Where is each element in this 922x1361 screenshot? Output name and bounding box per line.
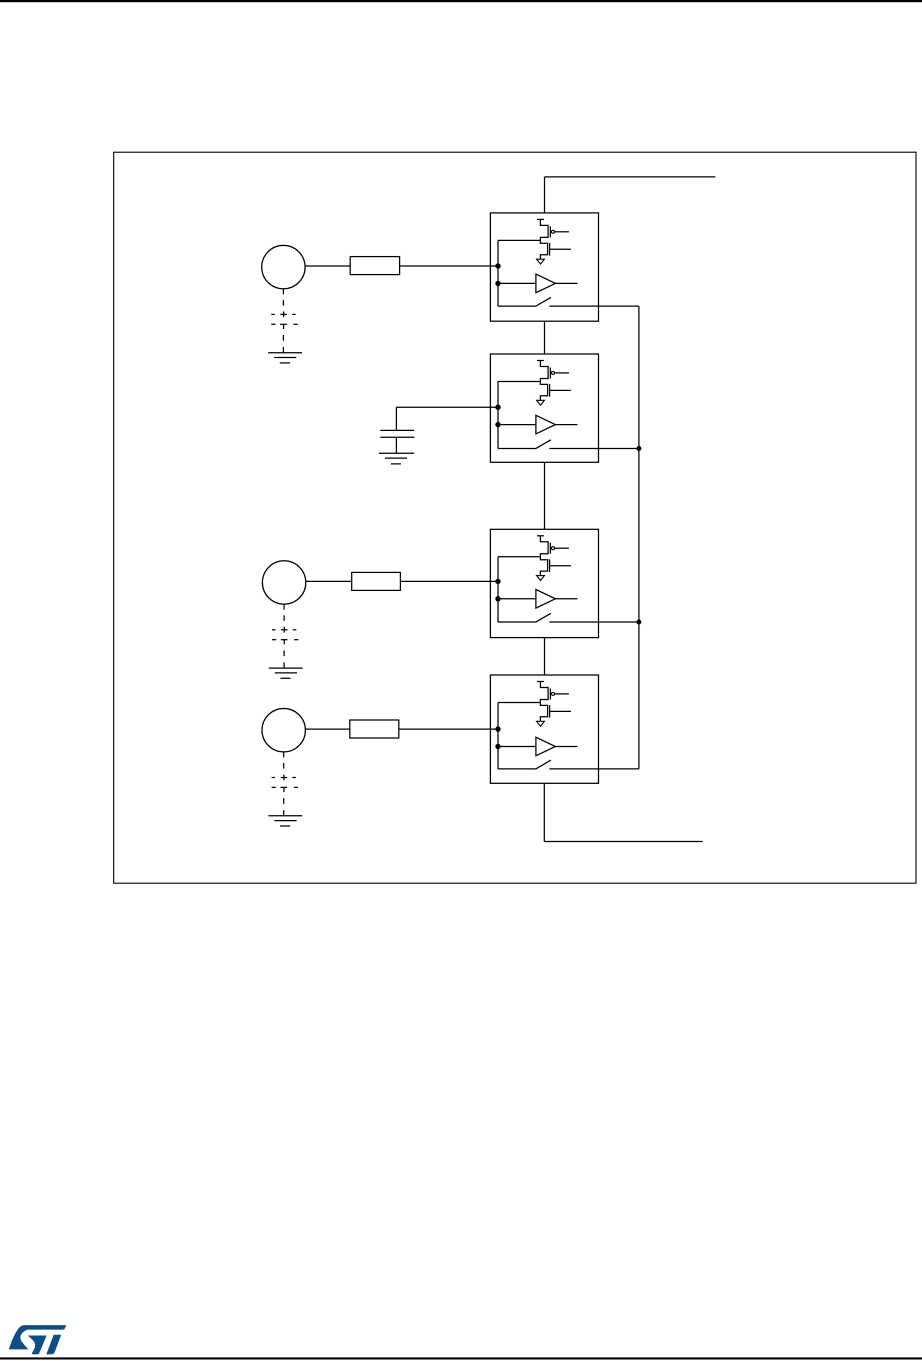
node VOUT top wire xyxy=(545,176,716,178)
common output bus wire xyxy=(638,306,640,769)
U4 PMOS gate bubble xyxy=(552,692,555,695)
U1 PMOS gate bubble xyxy=(552,230,555,233)
U4 NMOS gate lead xyxy=(550,710,571,712)
ground under V2 xyxy=(269,667,303,669)
U2 gate control wire xyxy=(498,381,540,383)
U4 internal control node wire xyxy=(497,703,499,769)
capacitor C1 xyxy=(380,429,414,431)
U2 NMOS gate bar xyxy=(549,384,551,397)
U2 PMOS pass transistor source bar xyxy=(537,360,544,362)
U1 gate control wire xyxy=(498,239,540,241)
U3 switch blade xyxy=(535,613,551,622)
wire V2 to R2 xyxy=(306,580,352,582)
resistor R2 xyxy=(352,572,401,590)
U3 internal control node wire xyxy=(497,557,499,622)
U4 PMOS pass transistor source bar xyxy=(537,681,544,683)
U1 PMOS/NMOS channel staircase wire xyxy=(540,219,548,259)
U3 gate control wire xyxy=(498,556,540,558)
U3 PMOS gate bar xyxy=(549,543,551,554)
U2 switch blade xyxy=(535,440,551,449)
analog switch block U2 box xyxy=(490,354,598,462)
U4 PMOS gate lead xyxy=(555,693,569,695)
U3 switch pole wire xyxy=(498,621,535,623)
V1 dashed battery negative plate xyxy=(271,323,275,325)
U4 switch blade xyxy=(535,760,551,769)
U3 PMOS/NMOS channel staircase wire xyxy=(540,536,548,576)
signal generator V2 circle xyxy=(262,561,305,604)
U1 NMOS gate bar xyxy=(549,243,551,256)
V1 dashed lead upper xyxy=(282,289,284,294)
U2 PMOS gate lead xyxy=(555,372,569,374)
C1 ground lead xyxy=(395,437,397,453)
wire U3 to U4 xyxy=(544,638,546,675)
page header rule xyxy=(0,0,922,2)
U4 switch pole wire xyxy=(498,768,535,770)
U2 buffer input node dot xyxy=(495,422,500,427)
V3 dashed battery positive plate xyxy=(272,777,276,779)
wire R1 to U1 xyxy=(400,265,498,267)
U3 PMOS gate bubble xyxy=(552,547,555,550)
resistor R1 xyxy=(350,257,399,275)
U1 PMOS gate bar xyxy=(549,226,551,237)
U4 NMOS gate bar xyxy=(549,705,551,718)
U4 PMOS gate bar xyxy=(549,689,551,700)
V3 dashed lead lower xyxy=(283,798,285,804)
U4 PMOS/NMOS channel staircase wire xyxy=(540,682,548,722)
analog switch block U4 box xyxy=(490,675,598,783)
wire from top node to U1 xyxy=(544,177,546,213)
U1 buffer output wire xyxy=(555,282,577,284)
junction U3 output xyxy=(636,620,641,625)
wire U4 to bottom node xyxy=(543,783,545,841)
U1 PMOS pass transistor source bar xyxy=(537,218,544,220)
wire V1 to R1 xyxy=(305,265,350,267)
node VIN bottom wire xyxy=(544,841,702,843)
U4 buffer amplifier xyxy=(536,737,556,756)
V1 dashed lead lower xyxy=(282,335,284,341)
U2 buffer amplifier xyxy=(536,415,556,434)
V2 dashed battery negative plate xyxy=(272,639,276,641)
U1 switch output wire xyxy=(549,305,639,307)
wire R3 to U4 xyxy=(399,728,498,730)
U1 buffer input wire xyxy=(498,282,536,284)
U1 switch blade xyxy=(535,297,551,306)
U2 switch pole wire xyxy=(498,448,535,450)
U2 buffer output wire xyxy=(555,424,577,426)
wire R2 to U3 xyxy=(400,580,498,582)
ground under C1 xyxy=(379,452,414,454)
ST Microelectronics logo xyxy=(9,1325,66,1354)
U3 buffer output wire xyxy=(555,598,577,600)
U1 switch pole wire xyxy=(498,305,535,307)
page footer rule xyxy=(0,1357,922,1359)
V3 dashed battery negative plate xyxy=(272,786,276,788)
U2 NMOS gate lead xyxy=(550,389,571,391)
ground under V3 xyxy=(268,815,302,817)
U4 substrate arrow xyxy=(537,721,545,726)
U1 PMOS gate lead xyxy=(555,231,569,233)
V1 dashed battery positive plate xyxy=(271,313,275,315)
U4 switch output wire xyxy=(549,768,639,770)
U3 substrate arrow xyxy=(537,576,545,581)
ground under V1 xyxy=(268,352,302,354)
junction U2 output xyxy=(636,446,641,451)
analog switch block U1 box xyxy=(490,213,598,321)
wire V3 to R3 xyxy=(305,728,349,730)
U1 buffer amplifier xyxy=(536,274,556,293)
V3 dashed lead upper xyxy=(283,752,285,757)
signal generator V1 circle xyxy=(262,245,305,288)
V2 dashed battery positive plate xyxy=(272,629,276,631)
capacitor C1 lead xyxy=(395,407,397,430)
U2 PMOS gate bubble xyxy=(552,371,555,374)
signal generator V3 circle xyxy=(262,709,305,752)
U2 input node dot xyxy=(495,405,500,410)
U2 buffer input wire xyxy=(498,424,536,426)
U1 input node dot xyxy=(495,263,500,268)
U3 buffer amplifier xyxy=(536,590,556,609)
V2 dashed lead lower xyxy=(283,650,285,656)
U4 buffer input wire xyxy=(498,746,536,748)
resistor R3 xyxy=(350,720,399,738)
U3 PMOS pass transistor source bar xyxy=(537,535,544,537)
V2 dashed lead upper xyxy=(283,605,285,610)
U4 input node dot xyxy=(495,726,500,731)
U3 switch output wire xyxy=(549,621,639,623)
wire U2 to U3 xyxy=(544,462,546,529)
U3 NMOS gate bar xyxy=(549,559,551,572)
wire U1 to U2 xyxy=(544,321,546,354)
analog switch block U3 box xyxy=(490,529,598,637)
U2 PMOS gate bar xyxy=(549,368,551,379)
U2 switch output wire xyxy=(549,448,639,450)
U3 PMOS gate lead xyxy=(555,547,569,549)
U1 NMOS gate lead xyxy=(550,248,571,250)
U3 input node dot xyxy=(495,579,500,584)
U2 PMOS/NMOS channel staircase wire xyxy=(540,361,548,401)
U3 buffer input node dot xyxy=(495,596,500,601)
U2 internal control node wire xyxy=(497,382,499,449)
U3 buffer input wire xyxy=(498,598,536,600)
U4 buffer output wire xyxy=(555,746,577,748)
U1 substrate arrow xyxy=(537,259,545,264)
U1 buffer input node dot xyxy=(495,281,500,286)
U2 substrate arrow xyxy=(537,400,545,405)
U1 internal control node wire xyxy=(497,240,499,306)
U4 gate control wire xyxy=(498,702,540,704)
U4 buffer input node dot xyxy=(495,744,500,749)
figure border frame xyxy=(114,152,916,883)
U3 NMOS gate lead xyxy=(550,565,571,567)
wire C1 to U2 xyxy=(396,406,498,408)
